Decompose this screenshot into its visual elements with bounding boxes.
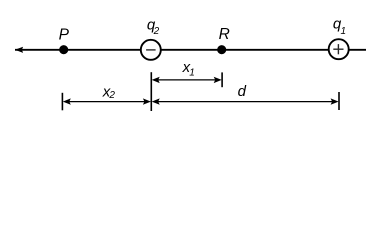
svg-text:1: 1 (189, 67, 195, 78)
arrowhead: x1 right (214, 77, 222, 83)
wire: x2 dimension line (69, 101, 145, 103)
arrowhead: x1 left (152, 77, 160, 83)
node R: filled dot (217, 45, 226, 54)
charge q1: circle with plus (329, 39, 349, 59)
arrowhead: d left (152, 98, 160, 104)
wire: d dimension line (158, 101, 332, 103)
arrowhead: d right (331, 98, 339, 104)
svg-text:d: d (238, 83, 247, 100)
arrowhead: x2 left (63, 98, 71, 104)
charge q2: circle with minus (141, 40, 161, 60)
tick: left end of x2 dimension (below P area) (61, 93, 63, 111)
wire: main horizontal axis line (15, 49, 366, 51)
tick: right end of x1 dimension (below R) (221, 72, 223, 87)
node P: filled dot (59, 45, 68, 54)
tick: right end of d dimension (below q1) (338, 92, 340, 110)
wire: x1 dimension line (158, 79, 216, 81)
svg-text:P: P (59, 26, 70, 43)
svg-text:2: 2 (153, 26, 160, 37)
arrowhead: left end of axis (15, 47, 23, 53)
svg-text:R: R (219, 26, 230, 43)
arrowhead: x2 right (143, 98, 151, 104)
svg-text:1: 1 (341, 26, 347, 37)
svg-text:2: 2 (108, 90, 115, 101)
tick: shared vertical tick below q2 (150, 72, 152, 111)
